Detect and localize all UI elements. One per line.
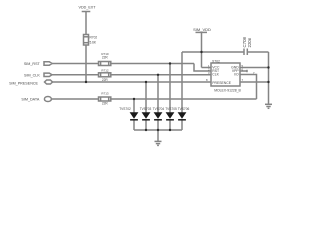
svg-text:R713: R713 [101, 91, 109, 95]
svg-text:R702: R702 [90, 36, 98, 40]
svg-text:5.6K: 5.6K [90, 40, 97, 44]
svg-text:22R: 22R [102, 78, 109, 82]
svg-text:I/O: I/O [234, 73, 239, 77]
svg-text:SIM_VDD: SIM_VDD [193, 27, 211, 32]
svg-text:TVS702: TVS702 [119, 107, 131, 111]
svg-text:TVS703: TVS703 [140, 107, 152, 111]
svg-text:TVS706: TVS706 [178, 107, 190, 111]
svg-text:PRESENCE: PRESENCE [212, 81, 231, 85]
svg-text:CLK: CLK [212, 73, 219, 77]
svg-text:220n: 220n [247, 37, 252, 47]
svg-text:SIM_DATA: SIM_DATA [21, 98, 39, 102]
svg-text:X702: X702 [212, 59, 220, 63]
svg-text:SIM_PRESENCE: SIM_PRESENCE [9, 81, 38, 85]
svg-text:R712: R712 [101, 68, 109, 72]
svg-text:22R: 22R [102, 56, 109, 60]
svg-text:TVS705: TVS705 [165, 107, 177, 111]
svg-text:SIM_CLK: SIM_CLK [24, 73, 40, 77]
svg-text:VDD_EXT: VDD_EXT [78, 6, 96, 10]
svg-text:MOLEX-91228_B: MOLEX-91228_B [214, 89, 241, 93]
svg-text:22R: 22R [102, 101, 109, 105]
svg-text:SIM_RST: SIM_RST [24, 62, 41, 66]
svg-text:TVS704: TVS704 [153, 107, 165, 111]
